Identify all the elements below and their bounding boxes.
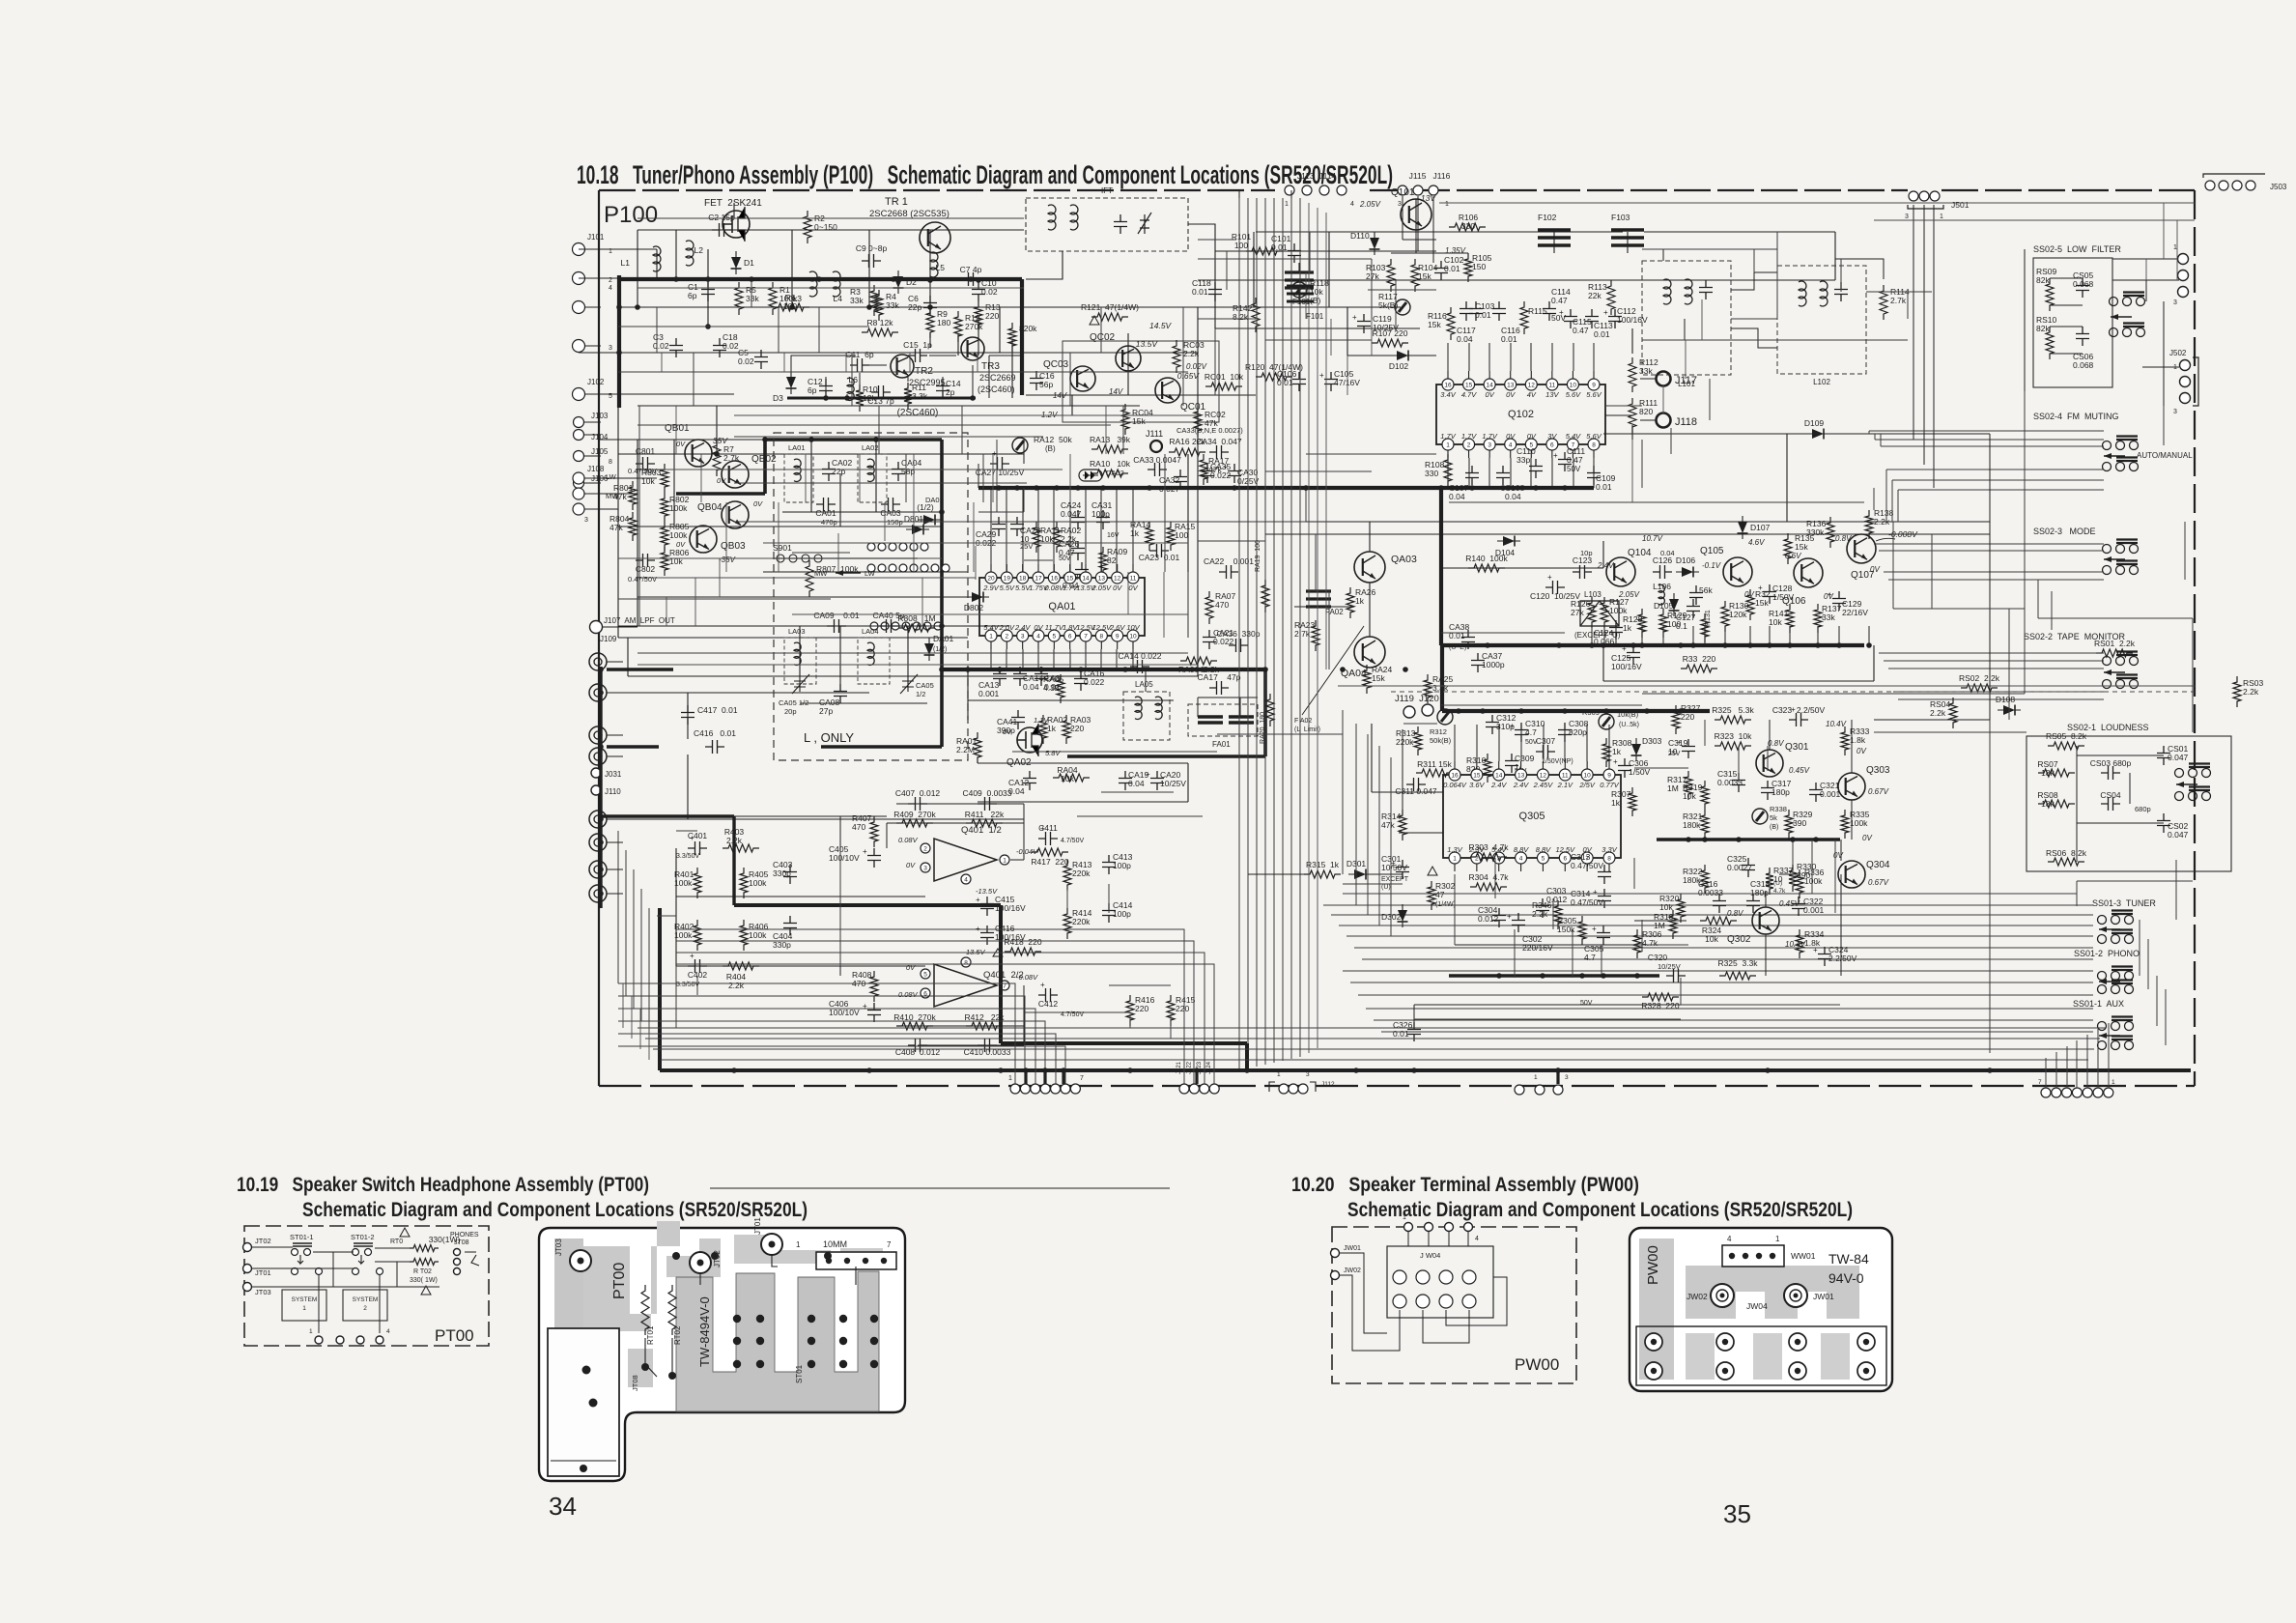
connector J502 — [2180, 360, 2191, 371]
ceramic filter F101 bars — [1287, 286, 1314, 301]
PT00 ring JT03 — [570, 1250, 591, 1271]
svg-text:JT08: JT08 — [454, 1239, 469, 1246]
svg-text:2: 2 — [1467, 442, 1471, 449]
svg-text:390: 390 — [1793, 818, 1806, 828]
svg-text:0V: 0V — [1113, 584, 1122, 592]
resistor R32 15k — [1746, 589, 1754, 620]
capacitor C309 1/50V — [1505, 754, 1518, 773]
svg-text:0.04: 0.04 — [1023, 682, 1039, 692]
wire Q401 region frame — [697, 815, 887, 817]
resistor R309 10k trimmer — [1599, 714, 1614, 729]
svg-text:34: 34 — [549, 1492, 577, 1521]
svg-text:TR3: TR3 — [981, 361, 1000, 372]
ceramic filter F102 — [1538, 230, 1571, 245]
thick bus Q301 0V — [1657, 838, 1840, 841]
svg-text:100: 100 — [1175, 530, 1188, 540]
L102 coil pair — [1799, 281, 1806, 306]
resistor R101 100 — [1246, 247, 1283, 255]
capacitor C319 10/25V — [1682, 739, 1695, 758]
resistor RT01 330(1W) — [410, 1245, 439, 1252]
svg-text:47k: 47k — [1208, 465, 1222, 474]
resistor R3 33k — [870, 285, 878, 316]
svg-text:SS01-3 TUNER: SS01-3 TUNER — [2092, 898, 2156, 908]
connector J117 — [1657, 372, 1671, 386]
svg-text:CA33 0.0047: CA33 0.0047 — [1133, 455, 1181, 465]
svg-text:220: 220 — [985, 311, 999, 321]
svg-text:5.6V: 5.6V — [1566, 390, 1581, 399]
trimmer R312 50k — [1437, 709, 1453, 725]
PT00 resistor RT02 silk — [668, 1285, 676, 1335]
PT00 cutout inner line — [551, 1460, 616, 1462]
coil L106 — [1658, 584, 1664, 605]
connector JT03 — [243, 1283, 252, 1292]
LA01 coil — [794, 459, 801, 481]
svg-text:10.20 Speaker Terminal Assem: 10.20 Speaker Terminal Assembly (PW00) — [1291, 1174, 1639, 1196]
capacitor CA19 0.04 — [1119, 771, 1132, 790]
svg-text:1.1V: 1.1V — [1034, 716, 1049, 725]
svg-text:330( 1W): 330( 1W) — [410, 1277, 438, 1284]
svg-text:820p: 820p — [1569, 727, 1587, 737]
svg-text:(1/4W): (1/4W) — [1435, 901, 1456, 908]
wire Q305 mesh — [1403, 723, 1437, 725]
resistor R4 33k — [875, 290, 883, 321]
svg-text:13.5V: 13.5V — [1136, 339, 1159, 349]
capacitor C6 22p — [923, 296, 937, 315]
wire low filter links — [2050, 277, 2083, 279]
wire Q305 pin feeds — [1454, 725, 1456, 761]
svg-text:18k: 18k — [2041, 768, 2055, 778]
resistor R108 330 — [1444, 454, 1452, 487]
svg-text:4: 4 — [964, 877, 968, 884]
svg-text:5.4V: 5.4V — [1566, 432, 1581, 441]
capacitor C109 0.01 — [1587, 466, 1601, 485]
svg-text:18k: 18k — [2041, 799, 2055, 809]
svg-text:14: 14 — [1487, 383, 1494, 389]
svg-text:0.47/50V: 0.47/50V — [1571, 861, 1603, 870]
connector JW02 schematic — [1331, 1271, 1340, 1280]
IFT coil b — [1070, 205, 1078, 230]
svg-text:3.3k: 3.3k — [912, 391, 928, 401]
svg-text:1: 1 — [1285, 201, 1289, 208]
svg-text:180: 180 — [937, 318, 950, 327]
resistor R137 33k — [1814, 604, 1822, 633]
diode D107 — [1738, 516, 1748, 539]
thick bus QA02 low — [1067, 755, 1265, 758]
svg-text:QC01: QC01 — [1180, 402, 1206, 413]
svg-text:50V: 50V — [1059, 555, 1071, 562]
svg-text:1/50V(NP): 1/50V(NP) — [1542, 758, 1573, 765]
resistor R8 12k — [862, 328, 898, 336]
wire Q102 left feed — [1347, 355, 1436, 356]
svg-text:J503: J503 — [2270, 183, 2287, 191]
svg-text:4: 4 — [1350, 201, 1354, 208]
capacitor C412 4.7/50V — [1038, 988, 1058, 1002]
svg-text:J113 J114: J113 J114 — [1297, 171, 1337, 181]
resistor R319 10k — [1701, 781, 1709, 810]
svg-text:0.047: 0.047 — [2168, 753, 2189, 762]
svg-text:5.4V: 5.4V — [983, 623, 999, 632]
svg-text:330p: 330p — [773, 868, 791, 878]
svg-text:PW00: PW00 — [1645, 1245, 1661, 1285]
wire FM muting nest — [1869, 430, 2104, 432]
wire PW00 schematic routing — [1407, 1232, 1409, 1246]
switch phono b — [2098, 981, 2134, 994]
svg-text:C2 15p: C2 15p — [708, 213, 735, 222]
PT00 silk wires — [699, 1273, 701, 1285]
svg-text:0.001: 0.001 — [1820, 789, 1841, 799]
resistor R401 100k — [694, 868, 701, 898]
capacitor C116 0.01 — [1492, 301, 1506, 321]
svg-text:FET 2SK241: FET 2SK241 — [704, 198, 762, 209]
resistor R138 2.2k — [1865, 510, 1873, 539]
svg-text:0V: 0V — [1506, 432, 1516, 441]
svg-text:WW01: WW01 — [1791, 1251, 1816, 1261]
svg-text:10k: 10k — [1769, 617, 1782, 627]
wire Q305 left links — [1402, 729, 1403, 810]
warning triangle R418 — [993, 949, 1003, 956]
capacitor C16 56p — [1030, 371, 1043, 390]
svg-text:C407 0.012: C407 0.012 — [895, 788, 941, 798]
capacitor C320 10/25V — [1666, 969, 1686, 982]
antenna coil L1 — [653, 246, 661, 271]
switch mode b — [2103, 561, 2139, 575]
svg-text:-0.08V: -0.08V — [1016, 973, 1038, 982]
resistor R415 220 — [1167, 995, 1175, 1026]
svg-text:C15 1p: C15 1p — [903, 340, 932, 350]
svg-text:CA01: CA01 — [815, 508, 836, 518]
svg-text:16: 16 — [1451, 773, 1459, 780]
svg-text:MW: MW — [814, 569, 828, 578]
arrow aux — [2099, 1033, 2120, 1039]
svg-text:(EXCEPT U): (EXCEPT U) — [1574, 631, 1621, 640]
svg-text:L101: L101 — [1678, 380, 1695, 388]
LA01 dashed box — [784, 454, 813, 502]
connector J031 — [591, 768, 601, 778]
node det bus junctions — [1589, 642, 1595, 648]
svg-text:100p: 100p — [1113, 861, 1131, 870]
svg-text:56p: 56p — [1039, 380, 1053, 389]
capacitor CA40 5p — [879, 619, 898, 633]
svg-text:0.02: 0.02 — [653, 341, 669, 351]
capacitor CA32 0.027 — [1174, 470, 1187, 489]
svg-text:22p: 22p — [908, 302, 921, 312]
svg-text:0.001: 0.001 — [1803, 905, 1825, 915]
capacitor C326 0.01 — [1407, 1022, 1421, 1041]
svg-text:82k: 82k — [2036, 324, 2050, 333]
svg-text:R33 220: R33 220 — [1683, 654, 1716, 664]
wire IF top rows — [1215, 250, 1436, 252]
capacitor CA08 27p — [834, 684, 847, 703]
svg-text:L4: L4 — [834, 294, 843, 303]
connector J118 — [1657, 413, 1671, 428]
svg-text:8: 8 — [1607, 856, 1611, 863]
transistor QA03 — [1354, 552, 1385, 583]
svg-text:0V: 0V — [906, 861, 916, 869]
capacitor C314 0.47/50V — [1598, 889, 1611, 908]
svg-text:+: + — [1510, 722, 1515, 730]
svg-text:15k: 15k — [1755, 598, 1769, 608]
svg-text:0.047: 0.047 — [1061, 509, 1082, 519]
LA04 dashed box — [858, 638, 890, 684]
arrow FM muting — [2104, 453, 2125, 459]
trimmer R118 10k — [1291, 282, 1307, 298]
svg-text:1: 1 — [1403, 1214, 1406, 1221]
svg-text:F103: F103 — [1611, 213, 1630, 222]
wire QA01 bottom drops — [990, 649, 992, 669]
resistor RA15 100 — [1167, 522, 1175, 551]
PW00 ring JW01 — [1784, 1284, 1807, 1307]
svg-text:C412: C412 — [1038, 999, 1059, 1009]
svg-text:35V: 35V — [713, 436, 728, 445]
svg-text:FA01: FA01 — [1212, 740, 1231, 749]
resistor R326 3.3k — [1719, 972, 1756, 980]
svg-text:9: 9 — [1607, 773, 1611, 780]
transistor Q304 — [1838, 861, 1865, 888]
wire Q401b loop — [896, 1025, 1024, 1027]
svg-text:35: 35 — [1723, 1499, 1751, 1528]
svg-text:+: + — [1613, 757, 1618, 766]
resistor R413 220k — [1063, 860, 1071, 891]
svg-text:0.47/50V: 0.47/50V — [1571, 897, 1603, 907]
thick bus QA02 out corner — [1263, 669, 1267, 756]
capacitor C7 4p — [961, 272, 980, 286]
svg-text:4.3k: 4.3k — [1043, 683, 1060, 693]
svg-text:5.5V: 5.5V — [1000, 584, 1015, 592]
connector J102 — [573, 388, 585, 401]
svg-text:14V: 14V — [1053, 391, 1067, 400]
svg-text:J102: J102 — [587, 378, 605, 386]
capacitor C401 3.3/50V — [688, 841, 707, 855]
svg-text:0V: 0V — [1003, 727, 1012, 736]
resistor R318 1M — [1669, 910, 1677, 939]
svg-text:0V: 0V — [1128, 584, 1138, 592]
thick bus FM vertical right — [1020, 279, 1024, 395]
svg-text:1: 1 — [1940, 214, 1943, 220]
wire right mid mesh — [2038, 617, 2193, 619]
resistor R330 390 — [1789, 865, 1797, 892]
svg-text:100k: 100k — [1850, 818, 1868, 828]
svg-text:2.2/50V: 2.2/50V — [1828, 954, 1857, 963]
svg-text:PT00: PT00 — [611, 1263, 628, 1299]
svg-text:LA04: LA04 — [862, 627, 879, 636]
svg-text:20: 20 — [987, 576, 995, 583]
PW00 trace m shape — [1686, 1266, 1859, 1319]
svg-text:(2SC460): (2SC460) — [978, 384, 1015, 394]
resistor R320 10k — [1677, 894, 1685, 923]
svg-text:J W04: J W04 — [1420, 1251, 1440, 1260]
capacitor C106 0.01 — [1292, 372, 1306, 391]
svg-text:1.2V: 1.2V — [1041, 411, 1058, 419]
capacitor C304 0.012 — [1492, 908, 1506, 927]
diode DA02 — [1079, 470, 1102, 481]
svg-text:J104: J104 — [591, 433, 609, 441]
svg-text:D109: D109 — [1804, 418, 1825, 428]
resistor RA03 220 — [1063, 715, 1070, 744]
capacitor CA22 0.001 — [1219, 565, 1238, 579]
svg-text:2.0V: 2.0V — [999, 623, 1015, 632]
capacitor C410 0.0033 — [978, 1039, 997, 1052]
resistor R5 33k — [735, 282, 743, 315]
svg-text:Q302: Q302 — [1727, 934, 1751, 945]
capacitor C316 0.0033 — [1713, 894, 1726, 913]
svg-text:0.068: 0.068 — [2073, 360, 2094, 370]
resistor R104 15k — [1411, 259, 1419, 292]
wire det drops to bus — [1591, 626, 1593, 645]
svg-text:CA09 0.01: CA09 0.01 — [813, 611, 860, 620]
svg-text:4.7V: 4.7V — [1461, 390, 1477, 399]
resistor R111 820 — [1629, 398, 1636, 433]
svg-text:11: 11 — [1130, 576, 1137, 583]
svg-text:0.01: 0.01 — [1192, 287, 1208, 297]
QC cluster box — [1063, 341, 1219, 422]
wire jack feeds — [607, 692, 869, 694]
svg-text:100k: 100k — [1804, 876, 1823, 886]
svg-text:10: 10 — [1570, 383, 1577, 389]
curve FA02 note — [1302, 626, 1364, 715]
resistor RA14 1k — [1146, 522, 1153, 551]
svg-text:D3: D3 — [773, 393, 783, 403]
svg-text:8: 8 — [1100, 634, 1104, 641]
wire bottom-left nest — [618, 983, 1015, 1086]
svg-text:CA03: CA03 — [880, 508, 901, 518]
svg-text:0.8V: 0.8V — [1768, 739, 1784, 748]
svg-text:CA05: CA05 — [916, 681, 934, 690]
PT00 comb gray — [676, 1271, 879, 1411]
svg-text:1k: 1k — [1611, 798, 1621, 808]
svg-text:J101: J101 — [587, 233, 605, 242]
svg-text:J121: J121 — [1176, 1061, 1182, 1074]
svg-text:RS06 8.2k: RS06 8.2k — [2046, 848, 2087, 858]
svg-text:+: + — [1813, 946, 1818, 954]
transistor TR2 2SC2995 — [891, 355, 914, 378]
transistor Q101 — [1401, 199, 1431, 230]
capacitor C126 0.04 — [1653, 565, 1672, 579]
resistor RA23 2.7k — [1312, 620, 1319, 651]
PT00 connector box — [816, 1252, 896, 1269]
svg-text:2.2k: 2.2k — [1183, 349, 1200, 358]
coil L3 — [809, 271, 817, 297]
FA01 resonator b — [1229, 717, 1254, 723]
svg-text:22k: 22k — [1588, 291, 1602, 300]
wire left connector stubs — [584, 248, 601, 250]
capacitor CA33 0.0047 — [1148, 463, 1167, 476]
resistor R129 100 — [1659, 609, 1667, 638]
capacitor C415 100/16V — [980, 897, 994, 916]
svg-text:Q303: Q303 — [1866, 765, 1890, 776]
svg-text:0.012: 0.012 — [1478, 914, 1499, 924]
svg-text:2.45V: 2.45V — [1533, 781, 1554, 789]
switch tape monitor b — [2103, 675, 2139, 689]
svg-text:R121 47(1/4W): R121 47(1/4W) — [1081, 302, 1139, 312]
svg-text:0.027: 0.027 — [1159, 484, 1180, 494]
transistor Q302 — [1752, 907, 1779, 934]
svg-text:CA33(U,N,E 0.0027): CA33(U,N,E 0.0027) — [1176, 426, 1243, 435]
capacitor C324 2.2/50V — [1818, 947, 1831, 966]
thick bus Q302 bottom — [1449, 974, 1659, 978]
capacitor CS03 680p — [2101, 766, 2120, 780]
capacitor CA36 330p — [1229, 639, 1248, 652]
svg-text:JT02: JT02 — [255, 1237, 271, 1245]
capacitor C119 10/25V — [1357, 314, 1371, 333]
svg-text:5: 5 — [1053, 634, 1057, 641]
resistor R107 220 — [1372, 339, 1408, 347]
resistor RS02 2.2k — [1961, 684, 1998, 692]
low filter box — [2033, 258, 2112, 387]
L102 capacitor — [1834, 282, 1848, 301]
capacitor C124 0.066 — [1609, 620, 1623, 640]
svg-text:1.7V: 1.7V — [1440, 432, 1456, 441]
svg-text:27p: 27p — [819, 706, 833, 716]
wire jack stubs — [607, 661, 623, 663]
resistor R417 220 — [1032, 848, 1068, 856]
svg-text:0.02: 0.02 — [981, 287, 998, 297]
capacitor C105 47/16V — [1324, 372, 1338, 391]
phono jack row 1 — [589, 653, 607, 670]
svg-text:+: + — [1603, 308, 1608, 317]
connector J107 — [590, 621, 603, 634]
svg-text:0.47: 0.47 — [1573, 326, 1589, 335]
svg-text:6: 6 — [1068, 634, 1072, 641]
svg-text:SS02-5 LOW FILTER: SS02-5 LOW FILTER — [2033, 244, 2121, 254]
FA01 dashed box — [1188, 704, 1258, 736]
capacitor C317 180p — [1761, 781, 1774, 800]
capacitor C2 15p — [712, 223, 731, 237]
thick bus CA27 supply — [978, 486, 1594, 490]
svg-text:SS01-2 PHONO: SS01-2 PHONO — [2074, 949, 2140, 958]
capacitor CA03 150p — [881, 498, 900, 511]
thick bus Q401 mid — [732, 816, 735, 905]
node dots Q305 supply bus — [1456, 708, 1461, 714]
svg-text:CS04: CS04 — [2100, 790, 2121, 800]
capacitor CS06 0.068 — [2076, 327, 2089, 346]
capacitor C12 6p — [819, 379, 833, 398]
coil L4 — [833, 271, 840, 297]
capacitor CA27 10/25V — [990, 457, 1009, 470]
resistor RA20 180 — [1266, 694, 1274, 726]
resistor R120 471 — [1256, 373, 1292, 381]
svg-text:4V: 4V — [1527, 390, 1537, 399]
capacitor C405 100/10V — [867, 848, 881, 868]
svg-text:DA01: DA01 — [925, 496, 944, 504]
svg-text:J103: J103 — [591, 412, 609, 420]
diode D108 — [1998, 705, 2021, 716]
svg-text:3: 3 — [609, 345, 612, 352]
thick bus FM AGC — [619, 277, 1022, 281]
svg-text:+: + — [863, 1002, 867, 1011]
resistor R308 1k — [1602, 738, 1610, 767]
svg-text:SS02-4 FM MUTING: SS02-4 FM MUTING — [2033, 412, 2119, 421]
wire QA03 QA04 links — [1369, 522, 1371, 552]
svg-text:10k: 10k — [641, 476, 655, 486]
resistor R323 10k — [1715, 742, 1751, 750]
svg-text:10MM: 10MM — [823, 1239, 847, 1249]
svg-text:R8 12k: R8 12k — [867, 318, 894, 327]
svg-text:10V: 10V — [1126, 623, 1140, 632]
capacitor C125 100/16V — [1627, 645, 1640, 665]
svg-text:DA02: DA02 — [1106, 469, 1124, 477]
wire QA01 mesh — [978, 511, 1024, 513]
svg-text:+: + — [1758, 584, 1763, 592]
node dots bottom bus — [731, 1068, 737, 1073]
svg-text:1.8k: 1.8k — [1850, 735, 1866, 745]
svg-text:R T02: R T02 — [413, 1268, 432, 1275]
svg-text:47k: 47k — [613, 492, 627, 501]
diode D302 — [1398, 904, 1408, 927]
diode D110 — [1370, 232, 1380, 255]
svg-text:2SC2668 (2SC535): 2SC2668 (2SC535) — [869, 209, 950, 219]
thick bus Q305 supply — [1442, 709, 1710, 713]
resistor R334 1.8k — [1796, 929, 1803, 958]
